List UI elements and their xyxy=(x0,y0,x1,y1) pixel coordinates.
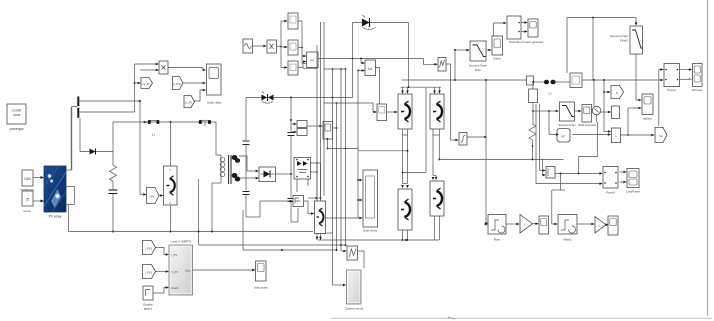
wire boost top xyxy=(170,122,172,166)
svg-text:[I_P]: [I_P] xyxy=(186,101,192,105)
arm1-3 midpoint link xyxy=(401,129,409,188)
svg-text:VdcIm: VdcIm xyxy=(493,57,502,61)
wire gate feed to hf igbt xyxy=(304,201,315,215)
gate feed small blocks xyxy=(293,196,304,207)
svg-text:temp: temp xyxy=(24,209,31,213)
svg-text:I and V (MPPT): I and V (MPPT) xyxy=(171,240,192,244)
bus bar terminal bottom xyxy=(77,108,79,118)
wire SOF to scope xyxy=(486,49,492,52)
from tag [I_PV] mppt xyxy=(143,265,156,279)
inverter output wire a xyxy=(359,150,409,152)
wire into control circuit xyxy=(333,284,347,287)
wire sequence out xyxy=(358,251,365,268)
svg-text:I_PV: I_PV xyxy=(171,253,177,257)
svg-text:u2: u2 xyxy=(561,135,565,139)
rectifier diode block xyxy=(259,167,276,182)
inverter bracket wire xyxy=(403,88,427,173)
arm2 top bracket xyxy=(433,87,441,94)
resistor R shunt xyxy=(110,165,117,181)
capacitor C shunt xyxy=(109,182,118,233)
bottom dc bus wire xyxy=(69,232,334,234)
scope r2 xyxy=(606,216,618,235)
measurement loop wire xyxy=(579,122,598,173)
wire sum to tag Va xyxy=(621,134,655,137)
wire PV out + to bus xyxy=(66,107,72,170)
series breaker element xyxy=(199,120,211,126)
wire mosfet out to vertical buses xyxy=(311,162,321,173)
wire SOF1 to RMS xyxy=(575,110,582,113)
wire const2 to PV input 2 xyxy=(33,200,44,203)
svg-text:RMS and load: RMS and load xyxy=(578,123,596,127)
wire load return to Powe3 xyxy=(536,182,603,185)
wire tag to mppt in2 xyxy=(156,270,170,273)
gate drive input arrows xyxy=(358,179,363,220)
gain triangle 2 xyxy=(595,217,606,234)
RMS block xyxy=(578,105,596,128)
svg-text:+: + xyxy=(615,135,617,139)
scope VdcIm xyxy=(492,36,503,61)
long vertical bus f xyxy=(340,68,342,251)
shaper block xyxy=(459,133,467,146)
svg-text:PI: PI xyxy=(310,59,313,63)
wire rel c to PI xyxy=(298,60,307,67)
scope1 block xyxy=(642,94,653,121)
junction crossing vertical xyxy=(198,179,200,245)
svg-text:Control circuit: Control circuit xyxy=(345,307,364,311)
hf igbt measure out xyxy=(326,217,360,219)
arm1 top bracket xyxy=(401,86,442,94)
svg-text:V_PV: V_PV xyxy=(172,270,179,274)
svg-text:Powe4: Powe4 xyxy=(667,88,676,92)
wire bus I measure xyxy=(80,64,135,112)
from tag [I_PV] xyxy=(173,77,184,90)
wire down to transformer xyxy=(216,122,221,155)
wire to relational c xyxy=(281,66,288,69)
wire rate1 to gain2 xyxy=(577,223,595,226)
svg-text:Powe3: Powe3 xyxy=(606,191,615,195)
svg-text:PowerSui of mains generator: PowerSui of mains generator xyxy=(509,40,544,44)
wire into goto u xyxy=(604,91,611,94)
page right border xyxy=(707,0,709,316)
goto tag u xyxy=(611,86,624,99)
wire SOF2 down xyxy=(636,54,642,101)
shunt branch wire xyxy=(112,122,114,165)
wire feedback lower xyxy=(243,210,337,251)
gate pair block a xyxy=(291,121,307,128)
arm4 bottom stubs xyxy=(435,216,440,240)
scope duty pulse xyxy=(254,261,268,290)
measurement vertical xyxy=(603,79,611,133)
relational block c xyxy=(288,61,298,75)
scope dcPower xyxy=(692,64,703,93)
svg-text:Rate1: Rate1 xyxy=(563,238,571,242)
unit delay block xyxy=(557,129,570,143)
from tag [D] boost gate xyxy=(147,188,160,204)
long vertical bus c xyxy=(323,22,325,196)
wire tag to mppt in1 xyxy=(156,248,170,256)
wire source to gain xyxy=(253,45,267,48)
second order filter2 xyxy=(610,26,643,54)
svg-text:uous: uous xyxy=(13,113,21,117)
pwm generator block xyxy=(377,104,387,121)
thyristor symbol xyxy=(262,92,274,104)
svg-text:Rate: Rate xyxy=(494,238,501,242)
relational block b xyxy=(288,40,303,55)
junction transformer return xyxy=(211,183,213,232)
wire MPPT duty out xyxy=(193,269,256,272)
svg-text:Enable: Enable xyxy=(143,303,153,307)
wire PV out mid xyxy=(66,187,75,205)
wire rate to gain xyxy=(506,223,520,226)
inductor L2 xyxy=(534,80,571,96)
svg-text:Filter2: Filter2 xyxy=(620,39,628,43)
power block Powe4 xyxy=(664,64,680,93)
svg-text:[ PV]: [ PV] xyxy=(145,271,151,275)
IGBT bridge arm 1 xyxy=(398,94,412,129)
wire into Powe4 in2 xyxy=(657,79,664,82)
svg-text:Contin: Contin xyxy=(12,109,22,113)
svg-text:Filter: Filter xyxy=(475,68,481,72)
snubber cap branch xyxy=(243,98,261,218)
wire shaper out xyxy=(467,136,486,138)
mux block xyxy=(546,167,555,179)
from tag [V_PV] xyxy=(141,78,153,89)
gain block xyxy=(267,40,277,53)
carrier block xyxy=(438,58,446,72)
IGBT bridge arm 2 xyxy=(430,94,444,129)
svg-text:rad/sec: rad/sec xyxy=(643,117,653,121)
svg-text:[ P]: [ P] xyxy=(150,195,155,199)
svg-text:powergui: powergui xyxy=(10,127,24,131)
wire stub into integrator 2 xyxy=(357,69,365,72)
long vertical bus a xyxy=(316,45,318,200)
second order filter1 xyxy=(558,102,576,131)
wire into demux xyxy=(600,111,612,114)
integrator out xyxy=(376,68,380,105)
bus link xyxy=(72,106,78,108)
MPPT controller block xyxy=(169,240,193,296)
svg-text:LoadPower: LoadPower xyxy=(626,190,640,194)
demux block xyxy=(612,106,620,119)
scope r1 xyxy=(539,216,549,234)
wire gain to splitter xyxy=(277,21,282,68)
load resistor zigzag xyxy=(529,124,536,160)
scope block B xyxy=(528,19,538,37)
product block P=V*I xyxy=(159,61,168,74)
wire pwm gen to igbt1 xyxy=(387,111,398,114)
svg-text:1000: 1000 xyxy=(24,177,31,181)
wire into tag xyxy=(134,82,141,85)
gate pair block b xyxy=(291,129,307,136)
wire to relational b xyxy=(281,46,288,49)
svg-text:L2: L2 xyxy=(548,92,552,96)
rate transition feed xyxy=(485,79,488,226)
wire mux out to Powe3 xyxy=(555,172,603,175)
wire gain to scope xyxy=(533,222,539,225)
hf igbt block xyxy=(315,201,326,234)
power measure block A xyxy=(507,16,544,44)
svg-text:Va: Va xyxy=(659,134,663,138)
relational block a xyxy=(288,13,298,29)
arm3 bottom stubs xyxy=(402,230,409,241)
wire pwm out xyxy=(333,127,338,129)
wire feedback upper xyxy=(199,244,347,246)
rate1 corner wire xyxy=(552,173,565,190)
IGBT bridge arm 3 xyxy=(398,189,412,230)
control circuit block xyxy=(345,270,364,311)
svg-text:PV array: PV array xyxy=(49,215,62,219)
from tag [V_PV] mppt xyxy=(143,241,156,255)
svg-text:Duty: Duty xyxy=(185,269,191,273)
constant block temp (25) xyxy=(22,191,33,213)
freewheel diode top xyxy=(353,15,409,98)
enable MPPT constant xyxy=(143,286,153,311)
measure drop vertical xyxy=(454,50,456,81)
scope Solar data xyxy=(207,64,222,105)
wire A to B xyxy=(521,21,528,33)
inverter output wire b xyxy=(438,158,563,160)
hf igbt top stubs xyxy=(308,163,322,201)
power block Powe3 xyxy=(603,167,618,195)
wire tag3 to scope port3 xyxy=(195,89,207,101)
hf igbt bottom stubs to return bus xyxy=(316,234,322,241)
parallel load line xyxy=(536,104,540,184)
wire to product in1 xyxy=(135,63,160,66)
wire to product in2 xyxy=(140,69,159,72)
wire pair to pwm block xyxy=(307,125,323,128)
wire boost bottom to bus xyxy=(170,205,172,232)
svg-text:Solar data: Solar data xyxy=(207,101,221,105)
wire to load bus xyxy=(582,79,657,81)
wire scope top loop xyxy=(494,22,507,36)
gain triangle 1 xyxy=(520,215,533,234)
second order filter block xyxy=(469,41,487,72)
wires into mux xyxy=(540,169,546,172)
sine source block xyxy=(243,39,253,53)
wire tag to boost igbt xyxy=(159,194,164,197)
powergui block xyxy=(7,104,26,131)
wire pwm down xyxy=(327,139,359,149)
junction on L1 wire xyxy=(170,121,172,123)
wire into gate tag xyxy=(140,193,147,196)
shunt branch snubber xyxy=(529,81,538,124)
rate block xyxy=(488,215,506,242)
wire carrier out xyxy=(446,64,459,141)
svg-text:u: u xyxy=(616,91,618,95)
wire tag to scope port2 xyxy=(183,82,206,85)
from tag 3 xyxy=(184,96,195,108)
goto tag Va xyxy=(655,128,667,143)
long vertical bus b xyxy=(320,22,322,200)
repeating sequence block xyxy=(347,246,358,260)
wire L1 row xyxy=(113,121,216,124)
svg-text:dcPower: dcPower xyxy=(692,88,703,92)
IGBT bridge arm 4 xyxy=(430,181,444,216)
wire PI out xyxy=(318,58,438,66)
transformer T1 xyxy=(212,155,240,184)
long vertical bus d xyxy=(332,68,334,285)
svg-text:Enabl: Enabl xyxy=(172,286,179,290)
wire PV out - xyxy=(66,205,75,232)
mosfet bridge block xyxy=(294,158,311,193)
wire into SOF1 xyxy=(533,110,559,113)
svg-text:[V_P]: [V_P] xyxy=(143,82,150,86)
diode D1 left xyxy=(80,118,113,155)
long vertical bus e xyxy=(336,102,338,251)
cross wire h103 xyxy=(324,103,377,113)
bus bar terminal top xyxy=(77,97,79,107)
gate drive block xyxy=(363,170,378,233)
svg-text:Second-Order: Second-Order xyxy=(469,64,487,68)
dc measurement long wire xyxy=(402,79,530,81)
wire to relational a xyxy=(281,20,288,23)
rate1 block xyxy=(558,215,577,242)
scope LoadPower xyxy=(626,169,640,194)
svg-text:[I_PV]: [I_PV] xyxy=(173,82,181,86)
wire bus V measure xyxy=(80,100,141,102)
wire into gate feed xyxy=(260,200,293,203)
top right loop wire xyxy=(567,17,637,80)
transformer secondary wires xyxy=(239,156,259,179)
wires Powe4 to scope xyxy=(680,68,693,79)
wire into scope1 port2 xyxy=(627,107,642,136)
series RLC branch block xyxy=(527,76,534,85)
svg-text:Gate Drive: Gate Drive xyxy=(363,229,378,233)
svg-text:Second-Order: Second-Order xyxy=(610,34,628,38)
wire unit delay to sum xyxy=(573,133,612,136)
integrator block xyxy=(365,60,376,76)
inverter return bus xyxy=(318,239,439,241)
wire into Powe4 in1 xyxy=(659,68,664,126)
wire rel outputs to bus xyxy=(302,56,317,68)
wire into sequence block xyxy=(341,250,347,253)
thyristor wire top xyxy=(246,97,353,99)
wire into unit delay xyxy=(549,111,559,136)
PI controller block xyxy=(307,52,319,68)
wire into SOF xyxy=(454,49,470,52)
voltage measurement circle xyxy=(592,80,601,122)
svg-text:L1: L1 xyxy=(152,133,156,137)
PV array block xyxy=(44,166,66,219)
page bottom border xyxy=(330,317,712,319)
svg-text:[ PV]: [ PV] xyxy=(145,247,151,251)
arm2-4 midpoint link xyxy=(432,129,440,180)
wires Powe3 to scope xyxy=(620,171,627,184)
rate1 feed xyxy=(552,190,558,225)
svg-text:25: 25 xyxy=(26,198,30,202)
svg-text:1/s: 1/s xyxy=(368,67,373,71)
svg-text:MPPT: MPPT xyxy=(144,307,153,311)
constant block Irradiance (1000) xyxy=(20,170,34,192)
dc link vertical xyxy=(275,98,298,223)
svg-text:duty pulse: duty pulse xyxy=(254,286,268,290)
wire rel a to PI xyxy=(298,21,307,57)
wire const1 to PV input 1 xyxy=(33,176,44,179)
wire enable to mppt in3 xyxy=(153,286,169,293)
boost IGBT block xyxy=(164,166,178,205)
cross wire h69 xyxy=(324,68,346,245)
inductor L1 xyxy=(148,120,160,137)
wire product to scope xyxy=(168,68,206,72)
series block2 xyxy=(570,73,582,88)
pwm block xyxy=(323,122,333,140)
gate drive feed vertical xyxy=(357,71,359,219)
sum block xyxy=(612,128,621,143)
vertical wire gate feed xyxy=(139,100,141,194)
